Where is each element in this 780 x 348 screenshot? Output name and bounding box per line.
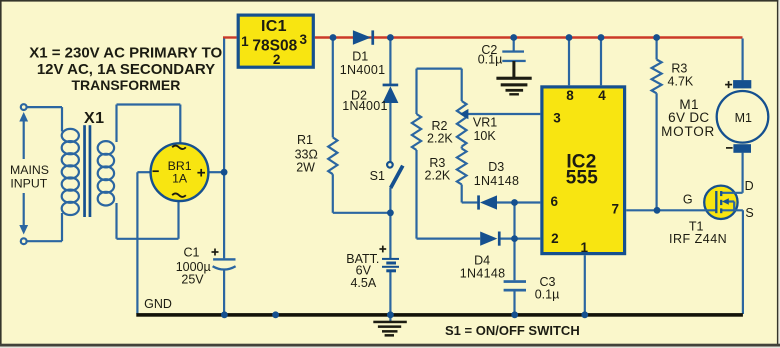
svg-text:IC1: IC1 [261,18,287,35]
svg-text:GND: GND [144,297,172,311]
svg-text:2.2K: 2.2K [427,131,453,145]
svg-text:1N4148: 1N4148 [474,174,520,188]
svg-text:4.5A: 4.5A [350,276,376,290]
svg-text:1: 1 [581,240,589,255]
svg-text:G: G [683,192,693,206]
svg-text:D: D [745,179,754,193]
svg-text:IRF Z44N: IRF Z44N [669,232,727,246]
svg-text:6V DC: 6V DC [668,110,709,125]
svg-text:2: 2 [273,52,281,67]
svg-text:6: 6 [551,194,559,209]
svg-text:12V AC, 1A SECONDARY: 12V AC, 1A SECONDARY [37,61,215,78]
svg-text:1A: 1A [172,172,188,186]
svg-text:D3: D3 [488,160,504,174]
svg-text:2W: 2W [296,161,315,175]
svg-text:MOTOR: MOTOR [661,124,715,139]
svg-text:VR1: VR1 [473,116,497,130]
svg-text:S1 = ON/OFF SWITCH: S1 = ON/OFF SWITCH [445,323,580,338]
svg-text:S1: S1 [370,169,385,183]
svg-text:2.2K: 2.2K [425,168,451,182]
svg-text:4: 4 [598,88,606,103]
svg-text:4.7K: 4.7K [668,75,694,89]
svg-text:2: 2 [551,231,559,246]
svg-text:3: 3 [300,32,308,47]
svg-text:S: S [745,206,753,220]
svg-text:INPUT: INPUT [10,177,47,191]
svg-text:X1 = 230V AC PRIMARY TO: X1 = 230V AC PRIMARY TO [29,45,222,62]
svg-text:3: 3 [553,110,561,125]
svg-text:8: 8 [566,88,574,103]
svg-text:D1: D1 [352,50,368,64]
svg-text:C1: C1 [184,246,200,260]
svg-text:1N4148: 1N4148 [460,267,506,281]
svg-text:0.1µ: 0.1µ [535,288,560,302]
svg-text:1N4001: 1N4001 [342,99,388,113]
svg-text:0.1µ: 0.1µ [478,52,503,66]
svg-text:7: 7 [612,202,620,217]
svg-text:1N4001: 1N4001 [340,63,386,77]
svg-text:MAINS: MAINS [10,163,49,177]
svg-text:R1: R1 [297,133,313,147]
svg-text:33Ω: 33Ω [295,148,318,162]
svg-text:10K: 10K [473,129,496,143]
svg-text:R3: R3 [671,61,687,75]
svg-text:555: 555 [566,167,599,188]
svg-text:X1: X1 [84,110,104,127]
svg-text:25V: 25V [181,273,204,287]
svg-text:1: 1 [241,34,249,49]
svg-text:M1: M1 [735,111,752,125]
svg-text:TRANSFORMER: TRANSFORMER [71,77,180,93]
